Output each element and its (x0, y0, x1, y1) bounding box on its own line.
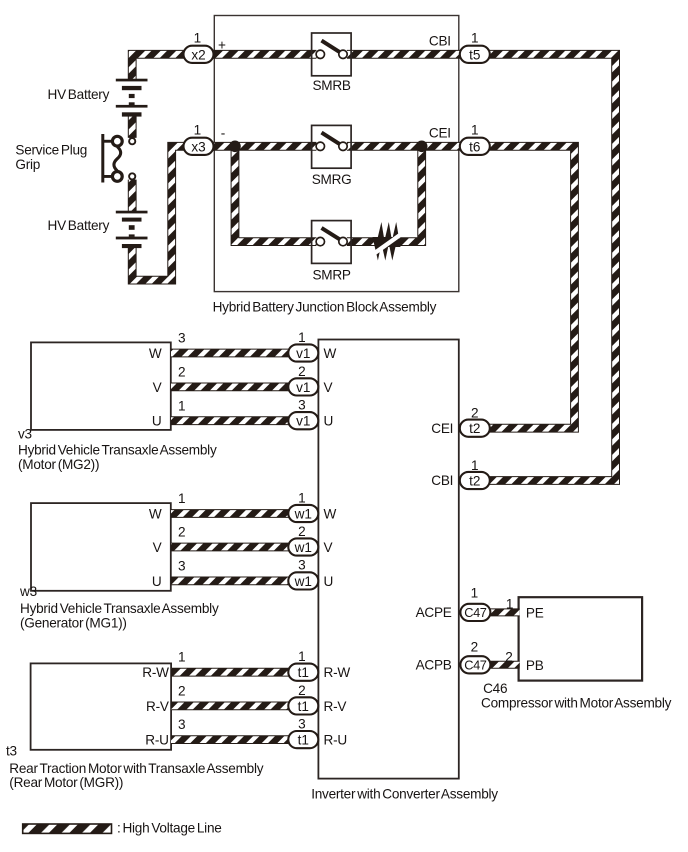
svg-text:t1: t1 (298, 733, 309, 748)
wire: MG1 V phase (171, 543, 303, 552)
net label CEI at inverter t2 (431, 421, 453, 436)
svg-text:w1: w1 (294, 540, 312, 555)
connector w1 V (288, 538, 318, 555)
inverter pin labels W,V,U (MG1 side) (324, 507, 337, 589)
label w3 Hybrid Vehicle Transaxle Assembly (Generator (MG1)) (19, 584, 219, 631)
label C46 Compressor with Motor Assembly (481, 681, 672, 710)
svg-text:W: W (324, 507, 337, 522)
svg-text:SMRG: SMRG (312, 172, 352, 187)
service plug grip (101, 134, 135, 183)
wire: t5 right to inverter t2 CBI (490, 54, 616, 480)
label SMRB (312, 78, 350, 93)
svg-text:3: 3 (298, 398, 306, 413)
svg-text:1: 1 (471, 31, 479, 46)
wire: SMRP through resistor up to CEI node (347, 146, 422, 241)
svg-text:2: 2 (471, 639, 479, 654)
wire: x2 left to HV battery 1 top (132, 54, 198, 80)
svg-text:V: V (153, 380, 162, 395)
svg-text:CBI: CBI (429, 34, 451, 49)
label HV Battery (lower) (48, 218, 110, 233)
svg-text:2: 2 (298, 364, 306, 379)
wire: MG2 W phase (171, 349, 303, 358)
svg-text:2: 2 (298, 524, 306, 539)
MG1 box pin labels W,V,U (149, 507, 162, 589)
MGR box pin labels R-W,R-V,R-U (142, 665, 169, 747)
svg-text:t6: t6 (469, 139, 480, 154)
wire: C47 ACPE to compressor PE (475, 608, 520, 616)
wire: SMRG right contact to t6 (347, 142, 461, 151)
svg-text:2: 2 (178, 525, 186, 540)
svg-text:t2: t2 (469, 421, 480, 436)
svg-text:ACPB: ACPB (416, 658, 452, 673)
net label CEI at t6 (429, 126, 451, 141)
label Hybrid Battery Junction Block Assembly (213, 299, 437, 314)
svg-text:t5: t5 (469, 47, 480, 62)
pin 2 of t2 CEI (471, 406, 479, 421)
wire: MGR R-W phase (171, 668, 303, 677)
HV battery 2 symbol (116, 211, 148, 248)
svg-text:w1: w1 (294, 574, 312, 589)
wire: MG2 V phase (171, 382, 303, 391)
svg-text:R-V: R-V (324, 699, 347, 714)
svg-text:HV Battery: HV Battery (48, 218, 110, 233)
svg-text:+: + (218, 37, 226, 52)
svg-text:3: 3 (298, 716, 306, 731)
svg-text:2: 2 (471, 406, 479, 421)
connector text C47 (ACPB) (464, 658, 487, 673)
connector t6 (460, 138, 490, 155)
svg-text:V: V (153, 540, 162, 555)
svg-text:Grip: Grip (15, 157, 40, 172)
svg-text:CEI: CEI (431, 421, 453, 436)
svg-text:(Motor (MG2)): (Motor (MG2)) (18, 457, 99, 472)
svg-text:R-W: R-W (324, 665, 351, 680)
connector text t5 (469, 47, 480, 62)
svg-text:Hybrid Battery Junction Block: Hybrid Battery Junction Block Assembly (213, 299, 437, 314)
pin 1 of t6 (471, 123, 479, 138)
pin 1 of x3 (194, 122, 202, 137)
svg-text:: High Voltage Line: : High Voltage Line (117, 821, 222, 836)
wire: MG2 U phase (171, 416, 303, 425)
relay SMRB (312, 33, 352, 76)
label SMRG (312, 172, 352, 187)
MGR pin numbers at box: 1,2,3 (178, 650, 186, 732)
Inverter with Converter Assembly box (318, 340, 458, 779)
svg-text:U: U (152, 414, 162, 429)
w1 pin numbers 1,2,3 (298, 491, 306, 573)
v1 pin numbers 1,2,3 (298, 330, 306, 413)
connector t5 (460, 46, 490, 63)
connector texts w1,w1,w1 (294, 507, 312, 589)
Compressor with Motor Assembly box C46 (519, 597, 643, 680)
svg-text:1: 1 (471, 123, 479, 138)
connector v1 W (288, 344, 318, 361)
connector t1 R-U (288, 731, 318, 748)
relay SMRG (312, 125, 352, 168)
connector t2 CEI (460, 420, 490, 437)
connector t1 R-V (288, 697, 318, 714)
svg-text:v1: v1 (296, 380, 310, 395)
svg-text:2: 2 (178, 365, 186, 380)
compressor pin label PE (526, 605, 544, 620)
net label CBI at t5 (429, 34, 451, 49)
Hybrid Battery Junction Block Assembly box (214, 16, 458, 292)
svg-text:W: W (324, 346, 337, 361)
svg-text:C46: C46 (483, 681, 507, 696)
svg-text:U: U (324, 414, 334, 429)
svg-text:C47: C47 (464, 605, 487, 620)
connector text C47 (ACPE) (464, 605, 487, 620)
label SMRP (312, 267, 350, 282)
net label ACPE (416, 605, 452, 620)
connector v1 U (288, 412, 318, 429)
svg-text:Inverter with Converter Assemb: Inverter with Converter Assembly (311, 787, 498, 802)
pin 1 of x2 (194, 30, 202, 45)
svg-text:x2: x2 (191, 47, 205, 62)
legend text: High Voltage Line (117, 821, 222, 836)
wire: MGR R-V phase (171, 702, 303, 711)
Rear Traction Motor with Transaxle Assembly box t3 (31, 663, 172, 749)
svg-text:w3: w3 (19, 584, 37, 599)
svg-text:1: 1 (178, 398, 186, 413)
svg-text:1: 1 (298, 330, 306, 345)
svg-text:SMRP: SMRP (312, 267, 350, 282)
wire: SMRB right contact to t5 (347, 50, 461, 59)
connector x2 (184, 46, 214, 63)
connector texts t1,t1,t1 (298, 665, 309, 747)
relay SMRP (312, 221, 352, 264)
connector t2 CBI (460, 472, 490, 489)
wire: HV battery 2 bottom to x3 (132, 146, 198, 280)
svg-text:R-U: R-U (145, 733, 168, 748)
svg-text:Rear Traction Motor with Trans: Rear Traction Motor with Transaxle Assem… (9, 761, 263, 776)
svg-text:x3: x3 (191, 139, 205, 154)
svg-text:2: 2 (505, 650, 513, 665)
svg-text:1: 1 (471, 585, 479, 600)
svg-text:t1: t1 (298, 665, 309, 680)
pin 1 of t5 (471, 31, 479, 46)
label t3 Rear Traction Motor with Transaxle Assembly (Rear Motor (MGR)) (6, 744, 264, 790)
svg-text:V: V (324, 540, 333, 555)
svg-text:Hybrid Vehicle Transaxle Assem: Hybrid Vehicle Transaxle Assembly (20, 601, 219, 616)
connector text x2 (191, 47, 205, 62)
svg-text:t2: t2 (469, 474, 480, 489)
connector text x3 (191, 139, 205, 154)
svg-text:W: W (149, 507, 162, 522)
svg-text:1: 1 (506, 597, 514, 612)
label v3 Hybrid Vehicle Transaxle Assembly (Motor (MG2)) (18, 426, 217, 472)
svg-text:-: - (221, 125, 226, 140)
inverter pin labels W,V,U (MG2 side) (324, 346, 337, 429)
pin 2 of C47 ACPB (471, 639, 479, 654)
connector v1 V (288, 378, 318, 395)
svg-text:R-U: R-U (324, 733, 347, 748)
wire: service plug to HV battery 2 top (128, 180, 137, 212)
svg-text:2: 2 (298, 683, 306, 698)
MG2 pin numbers at box: 3,2,1 (178, 331, 186, 414)
svg-text:PB: PB (526, 658, 544, 673)
svg-text:HV Battery: HV Battery (48, 87, 110, 102)
MG1 pin numbers at box: 1,2,3 (178, 491, 186, 573)
svg-text:C47: C47 (464, 658, 487, 673)
svg-text:3: 3 (298, 558, 306, 573)
label HV Battery (upper) (48, 87, 110, 102)
svg-text:(Rear Motor (MGR)): (Rear Motor (MGR)) (9, 775, 123, 790)
svg-text:1: 1 (298, 491, 306, 506)
node: CEI junction dot at t6 side (416, 141, 428, 153)
svg-text:3: 3 (178, 558, 186, 573)
wire: C47 ACPB to compressor PB (475, 661, 520, 669)
svg-text:Compressor with Motor Assembly: Compressor with Motor Assembly (481, 695, 672, 710)
svg-text:U: U (324, 574, 334, 589)
polarity - at x3 (221, 125, 226, 140)
connector text t6 (469, 139, 480, 154)
svg-text:1: 1 (194, 30, 202, 45)
connector w1 U (288, 572, 318, 589)
resistor (pre-charge) on SMRP branch (369, 222, 404, 261)
t1 pin numbers 1,2,3 (298, 649, 306, 731)
Hybrid Vehicle Transaxle Assembly (Generator MG1) box w3 (31, 503, 171, 591)
wire: MGR R-U phase (171, 735, 303, 744)
svg-text:1: 1 (298, 649, 306, 664)
inverter pin labels R-W,R-V,R-U (324, 665, 351, 747)
svg-text:CEI: CEI (429, 126, 451, 141)
net label CBI at inverter t2 (431, 473, 453, 488)
connector C47 ACPB (460, 656, 490, 673)
svg-text:t1: t1 (298, 699, 309, 714)
svg-text:ACPE: ACPE (416, 605, 452, 620)
svg-text:w1: w1 (294, 507, 312, 522)
svg-text:W: W (149, 346, 162, 361)
connector texts v1,v1,v1 (296, 346, 310, 429)
node: CEI junction dot at x3 side (229, 141, 241, 153)
label Inverter with Converter Assembly (311, 787, 498, 802)
pin 2 at compressor PB (505, 650, 513, 665)
svg-text:3: 3 (178, 331, 186, 346)
svg-text:v1: v1 (296, 414, 310, 429)
svg-text:2: 2 (178, 683, 186, 698)
connector text t2 (CBI) (469, 474, 480, 489)
wire: MG1 U phase (171, 577, 303, 586)
MG2 box pin labels W,V,U (149, 346, 162, 429)
Hybrid Vehicle Transaxle Assembly (Motor MG2) box v3 (31, 342, 171, 430)
svg-text:1: 1 (471, 458, 479, 473)
label Service Plug Grip (15, 142, 87, 172)
connector text t2 (CEI) (469, 421, 480, 436)
wire: x3 to SMRG left contact (213, 142, 316, 151)
svg-text:v1: v1 (296, 346, 310, 361)
connector C47 ACPE (460, 604, 490, 621)
svg-text:PE: PE (526, 605, 544, 620)
net label ACPB (416, 658, 452, 673)
svg-text:3: 3 (178, 717, 186, 732)
svg-text:1: 1 (178, 650, 186, 665)
wire: MG1 W phase (171, 509, 303, 518)
wire: t6 right to inverter t2 CEI (490, 146, 575, 428)
legend: high voltage line sample bar (23, 824, 112, 833)
compressor pin label PB (526, 658, 544, 673)
svg-text:1: 1 (194, 122, 202, 137)
svg-text:Service Plug: Service Plug (15, 142, 87, 157)
svg-text:SMRB: SMRB (312, 78, 350, 93)
wire: precharge branch down from x3 node to SMRP (235, 146, 316, 241)
connector w1 W (288, 505, 318, 522)
svg-text:V: V (324, 380, 333, 395)
svg-text:Hybrid Vehicle Transaxle Assem: Hybrid Vehicle Transaxle Assembly (18, 443, 217, 458)
svg-text:v3: v3 (18, 426, 32, 441)
HV battery 1 symbol (116, 79, 148, 117)
wire: x2 to SMRB left contact (213, 50, 316, 59)
wire: HV battery 1 bottom to service plug (128, 115, 137, 138)
svg-text:(Generator (MG1)): (Generator (MG1)) (20, 616, 127, 631)
svg-text:t3: t3 (6, 744, 17, 759)
pin 1 at compressor PE (506, 597, 514, 612)
pin 1 of t2 CBI (471, 458, 479, 473)
connector t1 R-W (288, 664, 318, 681)
svg-text:1: 1 (178, 491, 186, 506)
svg-text:R-W: R-W (142, 665, 169, 680)
svg-text:CBI: CBI (431, 473, 453, 488)
pin 1 of C47 ACPE (471, 585, 479, 600)
connector x3 (184, 138, 214, 155)
svg-text:R-V: R-V (146, 699, 169, 714)
polarity + at x2 (218, 37, 226, 52)
svg-text:U: U (152, 574, 162, 589)
